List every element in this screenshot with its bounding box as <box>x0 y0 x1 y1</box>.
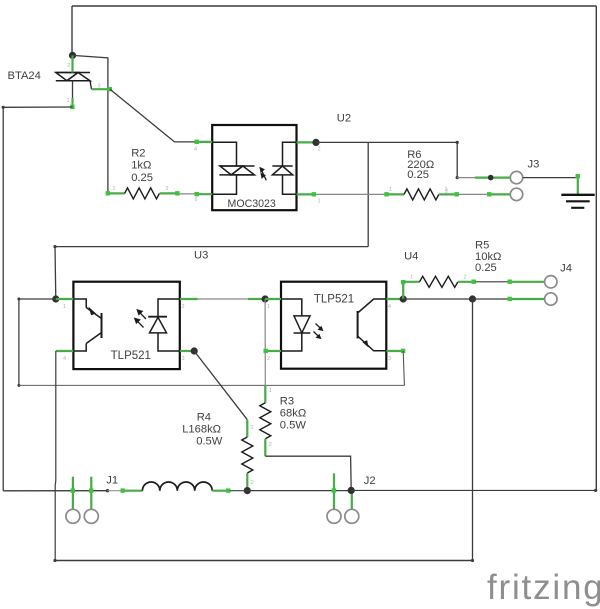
svg-text:6: 6 <box>195 197 198 203</box>
svg-text:2: 2 <box>267 356 270 362</box>
pin 3 lead U4 <box>386 350 403 352</box>
svg-text:0.25: 0.25 <box>475 262 497 274</box>
wire U3 pin1 loop to emitter rail <box>19 299 56 385</box>
wire U4 pin3 down <box>403 351 404 386</box>
wire U4 pin1 down to R3 <box>264 299 266 386</box>
svg-text:1: 1 <box>318 199 321 205</box>
node J2 pin2 junction <box>348 487 355 494</box>
wire R3 to J2 pin2 <box>265 456 351 490</box>
pin 3 lead U3 <box>180 350 194 352</box>
svg-text:0.25: 0.25 <box>131 172 153 184</box>
wire gate to U2 pin4 <box>110 89 196 142</box>
wire BTA24 pin1 to left rail <box>3 106 72 108</box>
svg-text:R5: R5 <box>475 239 489 251</box>
pin 4 lead U4 <box>386 298 403 300</box>
wire J2 to right border <box>351 489 596 491</box>
svg-text:R3: R3 <box>280 395 294 407</box>
svg-text:1: 1 <box>267 304 270 310</box>
svg-text:1: 1 <box>251 425 254 431</box>
U3 light arrows <box>134 309 146 328</box>
ground <box>561 195 594 208</box>
wire U4 pin4 to R5 <box>402 282 404 299</box>
connector J4 <box>545 276 557 288</box>
U2 internal LED diode <box>272 142 296 194</box>
svg-text:2: 2 <box>67 63 70 69</box>
node right rail junction <box>469 295 476 302</box>
svg-text:BTA24: BTA24 <box>8 70 41 82</box>
wire U2 pin2 to J3 pin1 <box>316 142 457 177</box>
svg-text:0.25: 0.25 <box>407 169 429 181</box>
op-amp U2 MOC3023 box <box>212 125 296 210</box>
svg-text:2: 2 <box>464 275 467 281</box>
svg-text:L168kΩ: L168kΩ <box>182 423 221 435</box>
resistor R6 <box>385 193 404 195</box>
svg-text:1: 1 <box>269 388 272 394</box>
svg-text:2: 2 <box>445 189 448 195</box>
svg-text:J1: J1 <box>106 475 118 487</box>
wire bottom rail <box>55 560 473 562</box>
svg-text:4: 4 <box>194 147 197 153</box>
svg-text:2: 2 <box>251 480 254 486</box>
pin 1 lead BTA24 <box>72 81 74 98</box>
connector J3 <box>510 171 522 183</box>
pin 2 lead U3 <box>180 298 198 300</box>
U4 internal LED diode <box>281 299 310 351</box>
svg-text:1: 1 <box>113 186 116 192</box>
connector J2 <box>327 509 341 523</box>
svg-text:J2: J2 <box>364 475 376 487</box>
svg-text:4: 4 <box>63 356 66 362</box>
connector J1 <box>66 509 80 523</box>
svg-text:2: 2 <box>318 147 321 153</box>
wire R6 to J3 pin2 <box>459 193 489 195</box>
svg-text:U3: U3 <box>194 250 208 262</box>
svg-text:0.5W: 0.5W <box>280 420 307 432</box>
svg-text:R2: R2 <box>131 148 145 160</box>
svg-text:TLP521: TLP521 <box>111 350 151 362</box>
svg-text:1: 1 <box>63 304 66 310</box>
wire U3 net horizontal <box>55 247 368 299</box>
pin 1 lead U4 <box>265 298 281 300</box>
wire R2 to U2 pin6 <box>179 193 196 195</box>
svg-text:MOC3023: MOC3023 <box>228 198 276 210</box>
svg-text:TLP521: TLP521 <box>314 293 354 305</box>
resistor R4 <box>246 420 248 437</box>
pin 4 lead U3 <box>56 350 74 352</box>
pin 2 lead U2 <box>297 141 317 143</box>
wire U2 pin1 to R6 <box>316 193 385 195</box>
node U3 pin3 junction <box>191 347 198 354</box>
wire coil junction to J2 <box>247 490 351 492</box>
wire J3 pin1 row <box>457 177 475 179</box>
wire right border <box>595 6 597 490</box>
U4 light arrows <box>314 324 324 340</box>
op-amp U3 TLP521 box <box>73 282 179 369</box>
pin 3 gate lead BTA24 <box>92 88 111 90</box>
triac Q1 BTA24 <box>56 73 92 90</box>
node BTA24 top junction <box>69 52 76 59</box>
U2 light arrow <box>259 167 266 181</box>
pin 6 lead U2 <box>196 193 212 195</box>
svg-text:1: 1 <box>67 98 70 104</box>
node U2 pin2 junction <box>312 139 319 146</box>
svg-text:68kΩ: 68kΩ <box>280 407 306 419</box>
wire U3 pin3 to R4 diagonal <box>194 351 247 420</box>
pin 2 lead U4 <box>265 350 281 352</box>
wire J3 pin1 to ground <box>523 177 578 179</box>
wire U3 pin4 down left <box>54 351 57 561</box>
svg-text:J4: J4 <box>560 262 572 274</box>
wire left rail <box>2 107 4 491</box>
wire U3 net vertical <box>367 142 369 246</box>
U3 internal LED diode <box>148 299 180 351</box>
U3 internal phototransistor <box>73 299 101 351</box>
svg-text:1kΩ: 1kΩ <box>131 160 151 172</box>
U4 internal phototransistor <box>358 299 387 351</box>
pin 4 lead U2 <box>196 141 212 143</box>
svg-text:U4: U4 <box>404 250 418 262</box>
wire R5 to J4 pin1 <box>476 281 510 283</box>
svg-text:0.5W: 0.5W <box>196 436 223 448</box>
resistor R3 <box>264 386 266 403</box>
wire U4 pin4 to J4 pin2 <box>403 298 472 300</box>
node U3 pin1 junction <box>52 295 59 302</box>
pin 1 lead U3 <box>56 298 74 300</box>
pin leads J1 <box>72 477 74 510</box>
wire right rail down <box>472 299 474 561</box>
pin 1 lead U2 <box>297 193 317 195</box>
svg-text:2: 2 <box>166 186 169 192</box>
svg-text:3: 3 <box>182 356 185 362</box>
inductor L1 <box>122 490 143 492</box>
svg-text:1: 1 <box>410 275 413 281</box>
svg-text:3: 3 <box>388 356 391 362</box>
node U4 pin1 junction <box>262 295 269 302</box>
svg-text:fritzing: fritzing <box>487 568 600 607</box>
resistor R5 <box>403 281 419 283</box>
svg-text:R4: R4 <box>197 411 211 423</box>
svg-text:4: 4 <box>388 304 391 310</box>
svg-text:1: 1 <box>389 187 392 193</box>
wire junction to R2 via x=107.9 <box>73 55 108 193</box>
wire top border <box>72 5 596 7</box>
node U4 pin4 junction <box>400 295 407 302</box>
wire U3 pin2 to U4 pin1 <box>198 298 254 300</box>
node R4 coil junction <box>244 487 251 494</box>
svg-text:J3: J3 <box>528 159 540 171</box>
wire left-top vertical <box>71 6 73 55</box>
U2 internal photo-triac <box>212 142 254 194</box>
svg-text:3: 3 <box>98 84 101 90</box>
svg-text:2: 2 <box>269 442 272 448</box>
svg-text:U2: U2 <box>337 113 351 125</box>
pin 2 lead BTA24 <box>71 55 73 72</box>
resistor R2 <box>108 192 125 194</box>
pin leads J2 <box>333 473 335 509</box>
op-amp U4 TLP521 box <box>281 282 386 369</box>
wire left rail to J1 <box>3 490 107 492</box>
svg-text:2: 2 <box>182 304 185 310</box>
